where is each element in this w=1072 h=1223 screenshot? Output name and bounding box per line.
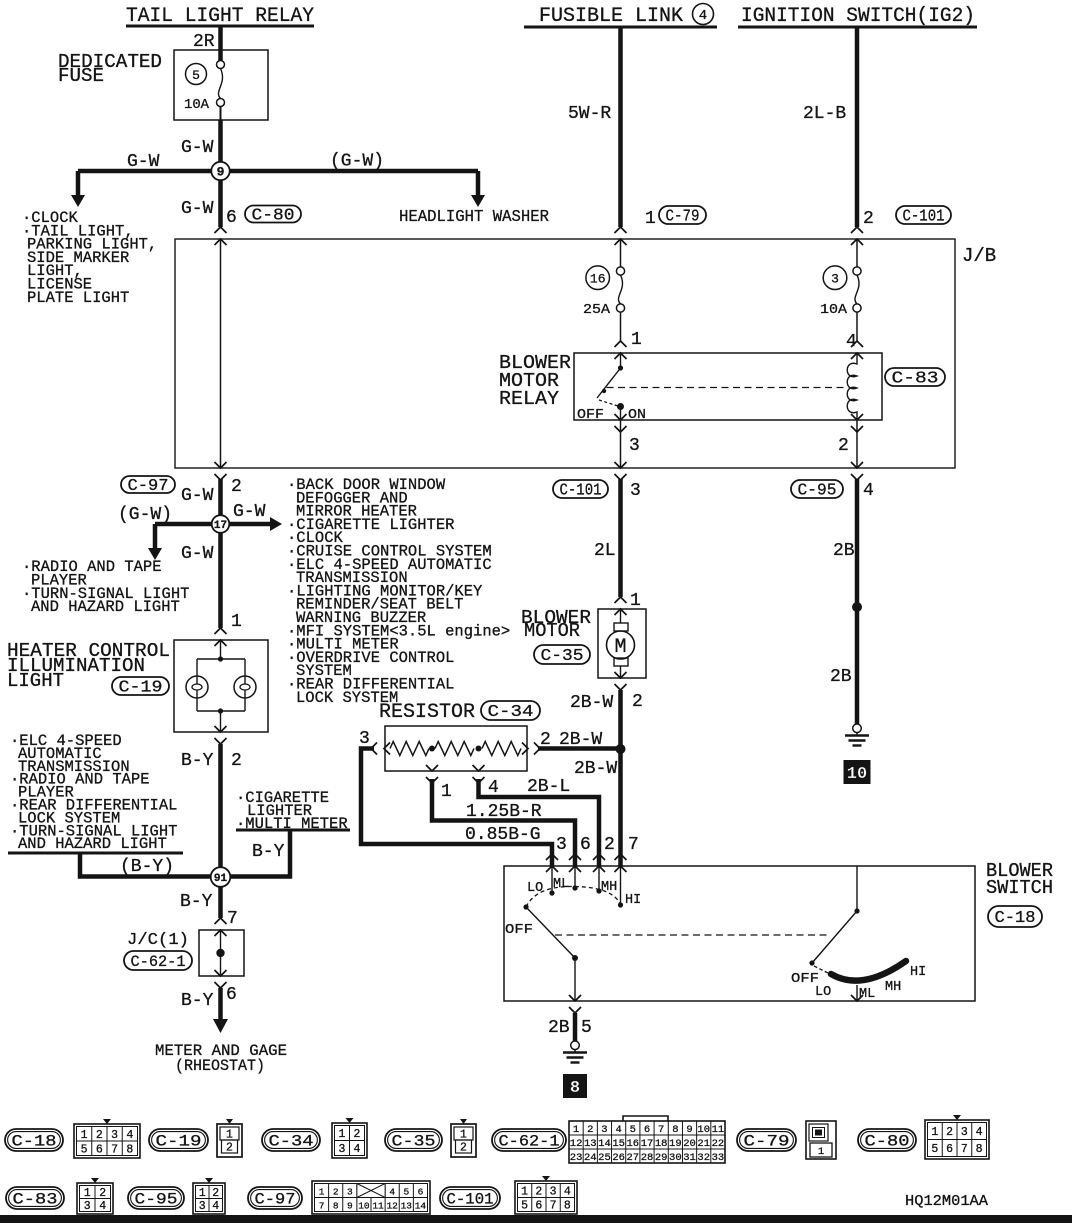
svg-text:2: 2 (838, 436, 849, 456)
svg-text:LO: LO (815, 985, 831, 1000)
svg-text:2: 2 (535, 1186, 542, 1199)
svg-text:2: 2 (333, 1187, 339, 1198)
svg-text:SWITCH: SWITCH (986, 877, 1053, 899)
svg-text:32: 32 (697, 1152, 710, 1164)
svg-text:6: 6 (418, 1187, 424, 1198)
svg-text:5W-R: 5W-R (568, 104, 611, 124)
connector crossing into relay box pin 1 (615, 341, 627, 347)
bottom page border bar (0, 1215, 1072, 1223)
resistor pin 4 crossing (473, 765, 485, 771)
svg-text:(B-Y): (B-Y) (120, 857, 174, 877)
wire 0.85B-G resistor pin 3 to switch pin 3 (361, 749, 552, 867)
svg-text:HI: HI (625, 893, 641, 908)
svg-text:3: 3 (630, 481, 641, 501)
svg-text:20: 20 (683, 1138, 696, 1150)
wire relay pin 2 to J/B bottom (856, 420, 858, 468)
wire B-Y from cigarette list to junction 91 (221, 830, 291, 877)
svg-text:5: 5 (521, 1200, 528, 1213)
svg-text:C-97: C-97 (255, 1191, 296, 1209)
resistor C-34 box (385, 726, 527, 771)
svg-text:(RHEOSTAT): (RHEOSTAT) (175, 1057, 265, 1075)
svg-text:25: 25 (598, 1152, 611, 1164)
connector crossing into J/B at x=620 (615, 227, 627, 233)
svg-text:LIGHT: LIGHT (7, 670, 64, 692)
connector table C-62-1 pin icon 33 pins (569, 1121, 725, 1163)
svg-text:2: 2 (604, 835, 615, 855)
svg-text:2B: 2B (830, 667, 852, 687)
svg-text:4: 4 (126, 1129, 133, 1142)
svg-text:2: 2 (212, 1187, 219, 1200)
svg-text:10: 10 (847, 765, 867, 784)
fuse 16 element 25A (616, 267, 624, 275)
crossing out of blower motor box (615, 672, 627, 678)
svg-text:3: 3 (111, 1129, 118, 1142)
wire B-Y junction 91 to J/C(1) (218, 877, 223, 918)
svg-text:J/B: J/B (962, 245, 996, 267)
wire 5W-R from fusible link bus (618, 27, 623, 227)
svg-text:1: 1 (339, 1128, 346, 1141)
connector table C-62-1 oval (492, 1129, 566, 1151)
junction 9 (211, 162, 229, 180)
wire G-W junction 9 to connector C-80 (218, 171, 223, 227)
relay pin 2 crossing (851, 414, 863, 420)
switch lever left (526, 907, 575, 958)
svg-text:6: 6 (226, 208, 237, 228)
relay switch contact (620, 353, 622, 368)
svg-text:G-W: G-W (181, 544, 214, 564)
svg-text:8: 8 (564, 1200, 571, 1213)
svg-text:10: 10 (697, 1124, 710, 1136)
relay switch to pin 3 (620, 407, 622, 421)
relay ON contact dot (617, 403, 624, 410)
connector crossing into relay box pin 4 (851, 341, 863, 347)
svg-text:MH: MH (601, 880, 617, 895)
svg-text:14: 14 (415, 1201, 427, 1212)
connector table C-97 oval (248, 1187, 302, 1209)
svg-text:10A: 10A (820, 303, 848, 318)
heater control illumination light box (174, 640, 268, 732)
crossing into blower switch pin 6 (569, 854, 581, 860)
wire (B-Y) from ELC list to junction 91 (80, 853, 221, 877)
connector table C-34 pin icon (332, 1123, 367, 1158)
J/B bottom crossing x=857 (851, 462, 863, 468)
svg-text:4: 4 (564, 1186, 571, 1199)
bus bar under cigarette lighter list (236, 829, 350, 832)
connector C-101 oval mid (553, 480, 608, 498)
svg-text:2: 2 (99, 1187, 106, 1200)
svg-text:8: 8 (672, 1124, 678, 1136)
connector table C-95 oval (128, 1187, 184, 1209)
svg-text:24: 24 (584, 1152, 597, 1164)
svg-text:7: 7 (550, 1200, 557, 1213)
relay pin 3 crossing (615, 414, 627, 420)
relay actuation dashed link (607, 387, 847, 389)
svg-text:3: 3 (550, 1186, 557, 1199)
ground ref box 10 (844, 760, 871, 784)
svg-text:3: 3 (961, 1126, 968, 1139)
svg-text:7: 7 (319, 1201, 325, 1212)
wire 1.25B-R resistor pin 1 to switch pin 6 (432, 779, 575, 866)
svg-text:M: M (614, 636, 626, 659)
svg-text:AND HAZARD LIGHT: AND HAZARD LIGHT (18, 835, 167, 853)
svg-text:23: 23 (570, 1152, 583, 1164)
svg-text:2: 2 (632, 692, 643, 712)
J/C internal node dot (220, 930, 222, 976)
connector table C-18 pin icon (74, 1124, 140, 1158)
svg-text:C-62-1: C-62-1 (499, 1133, 560, 1151)
connector table C-34 oval (262, 1129, 320, 1151)
svg-text:C-35: C-35 (541, 646, 584, 665)
svg-text:1: 1 (441, 782, 452, 802)
connector table C-18 oval (5, 1129, 63, 1151)
dashed link between switch halves (555, 934, 829, 936)
wire B-Y to meter and gage (218, 988, 223, 1020)
wire inside J/B to fuse 16 (620, 239, 622, 267)
wire G-W junction 17 to heater light (218, 524, 223, 628)
svg-text:HEADLIGHT WASHER: HEADLIGHT WASHER (399, 208, 549, 227)
svg-text:14: 14 (598, 1138, 611, 1150)
crossing into blower switch pin 7 (615, 854, 627, 860)
svg-text:3: 3 (84, 1200, 91, 1213)
svg-text:2B: 2B (548, 1018, 570, 1038)
svg-text:18: 18 (655, 1138, 668, 1150)
connector C-19 oval (112, 677, 169, 695)
svg-text:2: 2 (354, 1128, 361, 1141)
svg-text:28: 28 (641, 1152, 654, 1164)
fuse F5 element (217, 61, 225, 69)
svg-text:29: 29 (655, 1152, 668, 1164)
svg-text:5: 5 (192, 68, 200, 83)
svg-text:C-83: C-83 (13, 1191, 58, 1209)
resistor pin 1 crossing (426, 765, 438, 771)
svg-text:11: 11 (712, 1124, 725, 1136)
fuse F5 number circle 5 (186, 64, 207, 85)
svg-text:2B: 2B (833, 541, 855, 561)
connector C-34 oval (481, 701, 540, 720)
svg-text:2: 2 (587, 1124, 593, 1136)
svg-text:1: 1 (631, 330, 642, 350)
svg-text:1: 1 (84, 1187, 91, 1200)
J/B bottom crossing x=620 (615, 462, 627, 468)
wire inside J/B from C-80 down to C-97 (220, 239, 222, 468)
connector crossing into J/B top at x=220 (215, 227, 227, 233)
svg-text:2: 2 (96, 1129, 103, 1142)
splice dot on 2B wire (852, 602, 862, 612)
svg-text:7: 7 (111, 1143, 118, 1156)
svg-text:17: 17 (214, 520, 227, 532)
svg-text:5: 5 (931, 1143, 938, 1156)
svg-text:C-79: C-79 (744, 1133, 790, 1151)
svg-text:C-34: C-34 (269, 1133, 314, 1151)
blower motor box (598, 609, 646, 678)
wire resistor pin 2 to splice (538, 746, 621, 751)
svg-text:0.85B-G: 0.85B-G (465, 825, 541, 845)
svg-text:1: 1 (521, 1186, 528, 1199)
svg-text:B-Y: B-Y (252, 842, 285, 862)
svg-text:AND HAZARD LIGHT: AND HAZARD LIGHT (31, 598, 180, 616)
svg-text:33: 33 (712, 1152, 725, 1164)
bus bar under ELC list (8, 852, 183, 855)
svg-text:ON: ON (628, 407, 646, 423)
svg-text:4: 4 (354, 1143, 361, 1156)
resistor pin 2 crossing (522, 743, 528, 755)
svg-text:8: 8 (126, 1143, 133, 1156)
wire G-W left branch to clock and lights (78, 169, 221, 174)
wire G-W right arrow from junction 17 (221, 522, 271, 527)
svg-text:5: 5 (581, 1018, 592, 1038)
wire 2B-W motor to blower switch pin 7 (618, 690, 623, 866)
svg-text:C-19: C-19 (156, 1133, 202, 1151)
wire (G-W) right branch to headlight washer (221, 169, 479, 174)
crossing out of J/C box (215, 970, 227, 976)
svg-text:4: 4 (615, 1124, 621, 1136)
svg-text:2: 2 (231, 751, 242, 771)
svg-text:4: 4 (389, 1187, 395, 1198)
svg-text:1: 1 (81, 1129, 88, 1142)
connector table C-101 oval (440, 1187, 500, 1209)
svg-text:C-18: C-18 (995, 908, 1036, 927)
crossing into J/C box (215, 918, 227, 924)
connector crossing out of J/B bottom at x=220 (215, 462, 227, 468)
svg-text:3: 3 (556, 835, 567, 855)
wire B-Y heater light to junction 91 (218, 744, 223, 877)
junction 17 (212, 515, 230, 533)
connector table C-83 pin icon (77, 1183, 113, 1214)
svg-text:4: 4 (863, 481, 874, 501)
connector table C-79 pin icon (806, 1121, 836, 1159)
crossing out of heater light box (215, 726, 227, 732)
dashed selector arc left (526, 886, 621, 907)
svg-text:FUSE: FUSE (58, 65, 104, 87)
svg-text:12: 12 (386, 1201, 398, 1212)
svg-text:C-95: C-95 (135, 1191, 178, 1209)
svg-text:22: 22 (712, 1138, 725, 1150)
fuse 16 number circle (586, 266, 610, 290)
connector table C-19 pin icon (217, 1124, 242, 1157)
fuse 3 element 10A (853, 267, 861, 275)
connector table C-80 oval (858, 1129, 916, 1151)
svg-text:2B-L: 2B-L (527, 777, 570, 797)
svg-text:1: 1 (231, 612, 242, 632)
svg-text:C-18: C-18 (12, 1133, 57, 1151)
svg-text:1.25B-R: 1.25B-R (466, 802, 542, 822)
svg-text:LO: LO (527, 881, 543, 896)
connector table C-101 pin icon (515, 1181, 577, 1214)
svg-text:C-101: C-101 (560, 481, 602, 500)
svg-text:C-80: C-80 (865, 1133, 910, 1151)
crossing out of blower switch pin 5 (569, 995, 581, 1001)
svg-text:3: 3 (629, 436, 640, 456)
svg-text:6: 6 (535, 1200, 542, 1213)
svg-text:C-62-1: C-62-1 (131, 953, 186, 971)
svg-text:C-79: C-79 (666, 207, 700, 226)
svg-text:8: 8 (333, 1201, 339, 1212)
svg-text:MH: MH (885, 980, 901, 995)
lamp bulb right (234, 676, 256, 698)
svg-text:1: 1 (319, 1187, 325, 1198)
junction 91 (211, 867, 231, 887)
svg-text:2L: 2L (594, 541, 616, 561)
bus bar under TAIL LIGHT RELAY (126, 25, 314, 28)
crossing into blower switch pin 3 (546, 854, 558, 860)
connector crossing into J/B at x=857 (851, 227, 863, 233)
svg-text:3: 3 (199, 1200, 206, 1213)
svg-text:FUSIBLE LINK: FUSIBLE LINK (539, 5, 683, 28)
wire G-W from J/B to junction 17 (218, 479, 223, 524)
wire 2B from J/B to ground (855, 479, 860, 724)
svg-text:MOTOR: MOTOR (524, 620, 580, 642)
heater light internal wiring (220, 640, 222, 659)
connector C-95 oval (791, 480, 843, 498)
svg-text:G-W: G-W (127, 152, 160, 172)
wire G-W fuse to junction 9 (220, 107, 222, 172)
wire 2L from J/B to blower motor (618, 479, 623, 597)
connector C-35 oval (534, 645, 590, 664)
svg-text:RELAY: RELAY (499, 388, 560, 410)
svg-text:10A: 10A (184, 98, 210, 113)
svg-text:2L-B: 2L-B (803, 104, 846, 124)
lamp bulb left (186, 676, 208, 698)
svg-text:4: 4 (212, 1200, 219, 1213)
svg-text:C-97: C-97 (128, 476, 169, 495)
wire 2R from tail light relay bus to dedicated fuse (218, 26, 223, 61)
ground ref box 8 (563, 1074, 587, 1098)
svg-text:B-Y: B-Y (180, 892, 213, 912)
crossing at switch bottom right (856, 985, 858, 1001)
svg-text:ML: ML (859, 987, 875, 1002)
connector table C-83 oval (6, 1187, 64, 1209)
svg-text:11: 11 (372, 1201, 384, 1212)
svg-text:2: 2 (863, 209, 874, 229)
thick selector arc right (831, 961, 906, 981)
svg-text:1: 1 (573, 1124, 579, 1136)
svg-text:4: 4 (699, 8, 707, 24)
svg-text:3: 3 (831, 272, 839, 287)
svg-text:C-101: C-101 (903, 207, 945, 226)
svg-text:21: 21 (697, 1138, 710, 1150)
svg-text:C-101: C-101 (447, 1191, 494, 1209)
svg-text:B-Y: B-Y (181, 751, 214, 771)
svg-text:HI: HI (910, 965, 926, 980)
svg-text:27: 27 (627, 1152, 640, 1164)
connector C-80 oval (245, 206, 301, 223)
connector table C-19 oval (149, 1129, 208, 1151)
wire 2B switch to ground (573, 1013, 578, 1041)
svg-text:12: 12 (570, 1138, 583, 1150)
svg-text:3: 3 (601, 1124, 607, 1136)
wire 2L-B from ignition switch bus (855, 27, 860, 227)
svg-text:2: 2 (946, 1126, 953, 1139)
svg-text:8: 8 (976, 1143, 983, 1156)
splice dot resistor to motor wire (616, 744, 626, 754)
resistor junction dots (429, 746, 435, 752)
svg-text:4: 4 (976, 1126, 983, 1139)
svg-text:7: 7 (961, 1143, 968, 1156)
svg-text:6: 6 (580, 835, 591, 855)
connector table C-79 oval (737, 1129, 796, 1151)
svg-text:6: 6 (226, 985, 237, 1005)
svg-text:2B-W: 2B-W (574, 759, 617, 779)
svg-text:1: 1 (931, 1126, 938, 1139)
svg-text:1: 1 (199, 1187, 206, 1200)
fuse 3 number circle (823, 266, 847, 290)
svg-text:2B-W: 2B-W (570, 693, 613, 713)
svg-text:16: 16 (590, 272, 606, 287)
svg-text:7: 7 (658, 1124, 664, 1136)
connector C-101 oval top (896, 206, 951, 224)
right indicator stub (856, 866, 858, 911)
connector C-79 oval (659, 206, 706, 224)
svg-text:17: 17 (641, 1138, 654, 1150)
resistor element chain (390, 742, 429, 756)
ground G8 (571, 1041, 580, 1050)
svg-text:OFF: OFF (577, 407, 604, 423)
svg-text:RESISTOR: RESISTOR (379, 701, 475, 724)
svg-text:15: 15 (612, 1138, 625, 1150)
connector table C-80 pin icon (925, 1120, 989, 1159)
connector table C-95 pin icon (193, 1183, 225, 1214)
ground G10 (853, 724, 862, 733)
svg-text:13: 13 (401, 1201, 413, 1212)
connector C-83 oval (885, 368, 945, 386)
svg-text:2: 2 (231, 477, 242, 497)
svg-text:7: 7 (628, 835, 639, 855)
svg-text:91: 91 (214, 873, 228, 885)
svg-text:9: 9 (217, 165, 225, 180)
svg-text:C-80: C-80 (252, 206, 295, 225)
wire fuse 3 to relay pin 4 (856, 312, 858, 341)
svg-text:ML: ML (553, 877, 569, 892)
svg-text:HQ12M01AA: HQ12M01AA (905, 1193, 988, 1210)
svg-text:5: 5 (81, 1143, 88, 1156)
switch OFF contact left (523, 904, 528, 909)
connector C-97 icon crossed cell (357, 1184, 385, 1198)
svg-text:30: 30 (669, 1152, 682, 1164)
svg-text:G-W: G-W (181, 486, 214, 506)
svg-text:25A: 25A (583, 303, 611, 318)
svg-text:26: 26 (612, 1152, 625, 1164)
svg-text:3: 3 (347, 1187, 353, 1198)
svg-text:C-19: C-19 (119, 678, 163, 697)
svg-text:PLATE LIGHT: PLATE LIGHT (27, 289, 129, 307)
svg-text:2R: 2R (193, 32, 215, 52)
svg-text:C-83: C-83 (892, 369, 939, 388)
connector table C-97 pin icon (312, 1181, 430, 1214)
connector C-18 oval (988, 906, 1042, 927)
svg-text:7: 7 (227, 909, 238, 929)
svg-text:1: 1 (645, 209, 656, 229)
switch contact stubs and dots (551, 866, 553, 893)
svg-text:9: 9 (347, 1201, 353, 1212)
svg-text:31: 31 (683, 1152, 696, 1164)
svg-text:6: 6 (946, 1143, 953, 1156)
blower switch box (504, 866, 975, 1001)
fuse F5 box (174, 50, 268, 120)
wire 2B-L resistor pin 4 to switch pin 2 (479, 779, 600, 866)
svg-text:1: 1 (818, 1146, 824, 1158)
svg-text:G-W: G-W (181, 138, 214, 158)
svg-text:2: 2 (226, 1142, 233, 1155)
wire fuse 16 to relay pin 1 (620, 312, 622, 341)
svg-text:3: 3 (359, 729, 370, 749)
svg-text:8: 8 (570, 1079, 580, 1098)
switch common to pin 5 (574, 958, 576, 1001)
junction block J/B box (175, 239, 955, 468)
wire relay pin 3 to J/B bottom (620, 420, 622, 468)
relay coil (847, 353, 857, 420)
svg-text:J/C(1): J/C(1) (127, 931, 189, 950)
svg-text:C-34: C-34 (488, 702, 534, 721)
